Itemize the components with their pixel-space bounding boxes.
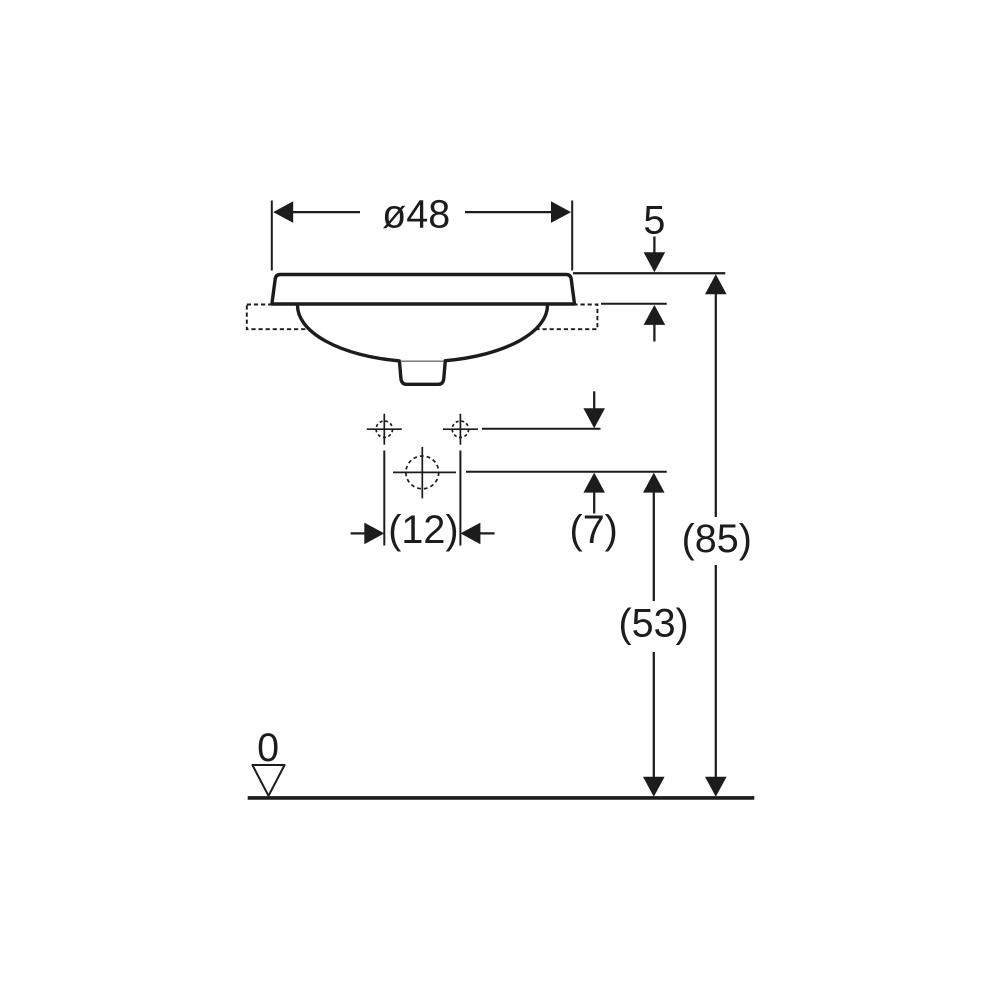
faucet hole level reference line (482, 428, 601, 430)
svg-text:ø48: ø48 (382, 193, 450, 237)
svg-text:(53): (53) (618, 602, 688, 646)
drain hole symbol (dashed circle with crosshair) (393, 447, 456, 499)
datum zero label (257, 726, 279, 770)
dimension (12): label (388, 508, 458, 552)
dimension o48: right extension line (571, 201, 573, 271)
dimension o48: left arrow (273, 201, 360, 223)
dimension o48: label (382, 193, 450, 237)
dimension 5: upper arrow pointing down (644, 237, 666, 273)
dimension (85): vertical line with arrows (705, 274, 727, 797)
dimension o48: left extension line (271, 201, 273, 271)
dashed mounting cut-out rectangle (247, 305, 598, 330)
dimension 5: lower arrow pointing up (644, 305, 666, 342)
basin bowl with drain outlet (297, 305, 547, 385)
dimension (12): right arrow pointing left (460, 523, 494, 545)
dimension (12): right extension line (459, 451, 461, 546)
arrow pointing down to faucet hole level (583, 391, 605, 428)
dimension (12): left extension line (383, 451, 385, 546)
datum triangle symbol (252, 765, 284, 796)
dimension (7): label (570, 508, 618, 552)
drain level reference line (466, 471, 667, 473)
dimension (7): arrow pointing up to drain level (583, 473, 605, 514)
svg-text:5: 5 (643, 199, 665, 243)
svg-text:0: 0 (257, 726, 279, 770)
basin rim (flange) (272, 275, 575, 305)
dimension (53): vertical line with arrows (643, 473, 665, 797)
dimension (53): label (618, 602, 688, 646)
svg-text:(85): (85) (682, 517, 752, 561)
floor / ground line (248, 796, 755, 800)
dimension 5: label (643, 199, 665, 243)
svg-text:(12): (12) (388, 508, 458, 552)
dimension 5: rim bottom reference line (601, 303, 667, 305)
rim top reference line (to 85 dimension) (573, 272, 725, 274)
dimension o48: right arrow (465, 201, 571, 223)
dimension (85): label (682, 517, 752, 561)
left faucet hole symbol (367, 414, 402, 445)
right faucet hole symbol (443, 414, 478, 445)
dimension (12): left arrow pointing right (351, 523, 385, 545)
svg-text:(7): (7) (570, 508, 618, 552)
